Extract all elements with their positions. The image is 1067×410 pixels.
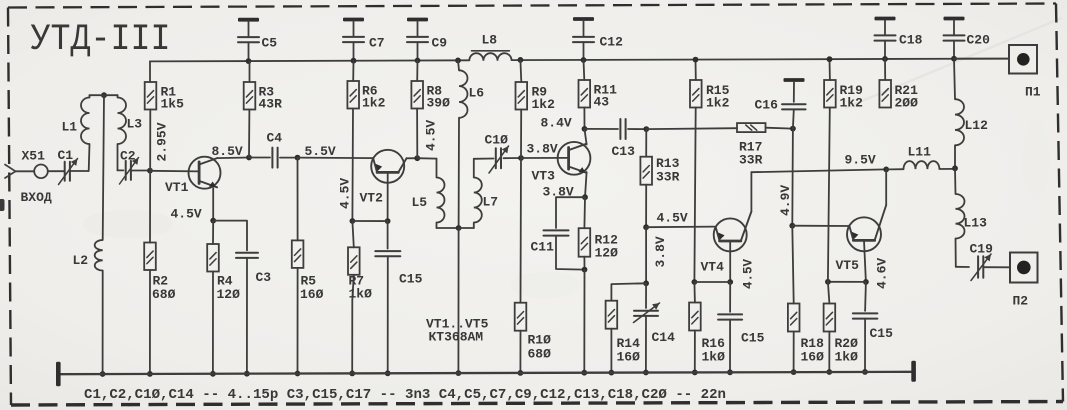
label VT1..VT5 КТ368АМ [426, 317, 489, 345]
svg-text:R1Ø: R1Ø [528, 333, 552, 348]
label X51 [22, 149, 46, 164]
wire C1 to L1 [70, 170, 89, 172]
resistor R8 [411, 81, 450, 111]
wire C16 junction down to VT5 base node [789, 129, 795, 229]
wire R21 top [884, 59, 886, 80]
svg-text:VT4: VT4 [701, 260, 725, 275]
svg-text:2.95V: 2.95V [155, 122, 170, 161]
wire R16 to ground rail [692, 331, 698, 376]
wire C3 to ground rail [244, 258, 250, 377]
svg-text:4.5V: 4.5V [338, 178, 353, 209]
inductor L5 [412, 159, 445, 228]
svg-text:C9: C9 [432, 36, 448, 51]
capacitor C16 with chassis bar [755, 78, 806, 129]
inductor L12 [952, 59, 988, 172]
svg-text:4.5V: 4.5V [657, 211, 688, 226]
transistor VT5 [836, 217, 882, 273]
capacitor C15 first [375, 221, 422, 376]
svg-text:16Ø: 16Ø [801, 350, 825, 365]
resistor R4 [207, 221, 240, 302]
wire VT2 base junction link [352, 220, 387, 222]
svg-text:VT5: VT5 [836, 258, 860, 273]
capacitor C3 [236, 253, 271, 285]
wire C2 to node R1 column [131, 168, 153, 174]
inductor L2 [73, 95, 105, 374]
svg-text:УТД-III: УТД-III [31, 19, 171, 61]
capacitor C18 with chassis ground bar [875, 17, 923, 62]
wire VT3 base line [521, 157, 569, 159]
svg-text:L3: L3 [127, 117, 143, 132]
svg-text:5.5V: 5.5V [305, 144, 336, 159]
label 3.8V VT3 base [527, 142, 558, 157]
wire R19 down to R20 [828, 108, 830, 282]
inductor L6 [455, 58, 484, 229]
svg-text:L13: L13 [964, 216, 988, 231]
svg-text:L6: L6 [469, 86, 485, 101]
wire R14 to ground rail [609, 329, 615, 376]
wire 9.5V line [751, 153, 886, 173]
wire rail corner down to R1 [149, 61, 151, 82]
resistor R9 [516, 82, 556, 112]
wire R3 column [249, 61, 251, 82]
resistor R7 [348, 221, 372, 302]
svg-text:C4: C4 [267, 131, 283, 146]
label 3.8V VT3 emitter [543, 184, 574, 199]
resistor R16 [689, 282, 725, 365]
resistor R17 in line [646, 123, 793, 167]
resistor R5 [292, 240, 324, 302]
wire VT1 base line [150, 170, 199, 173]
wire VT5 base to R20 link [825, 279, 866, 285]
svg-text:L12: L12 [965, 118, 989, 133]
label 8.4V [541, 116, 572, 131]
svg-text:C11: C11 [531, 240, 555, 255]
svg-text:1k2: 1k2 [532, 97, 556, 112]
svg-text:C15: C15 [870, 326, 894, 341]
resistor R2 [144, 243, 175, 303]
svg-text:C13: C13 [612, 144, 636, 159]
svg-text:1kØ: 1kØ [702, 350, 726, 365]
svg-text:VT3: VT3 [532, 169, 556, 184]
wire VT1 collector to 8.5V node [217, 155, 252, 161]
label 4.5V at R7 column [338, 178, 353, 209]
svg-text:33R: 33R [739, 153, 763, 168]
svg-text:1kØ: 1kØ [835, 350, 859, 365]
wire VT3 emitter down [582, 172, 588, 200]
wire R18 to ground rail [791, 332, 797, 376]
connector П2 [1010, 253, 1038, 309]
resistor R1 [145, 82, 184, 112]
wire top supply rail left segment [150, 60, 469, 61]
wire rail to П1 [954, 58, 1009, 60]
wire L8 junction down to R9 [519, 60, 522, 82]
wire R5 to ground rail [295, 268, 301, 376]
junction R16 top [692, 279, 698, 285]
svg-text:4.5V: 4.5V [424, 120, 439, 151]
wire VT2 collector node to L5 [417, 157, 436, 159]
wire L5 bottom to junction [437, 225, 462, 231]
wire R6 top [352, 61, 354, 81]
svg-text:VT1: VT1 [165, 180, 189, 195]
svg-text:39Ø: 39Ø [427, 96, 451, 111]
inductor L3 [104, 95, 142, 170]
svg-text:68Ø: 68Ø [528, 347, 552, 362]
resistor R20 [824, 282, 859, 365]
resistor R6 [347, 81, 385, 111]
capacitor C11 [531, 197, 586, 269]
transistor VT4 [701, 218, 747, 274]
capacitor C15 second [718, 282, 765, 375]
wire VT5 base lead down [863, 240, 869, 284]
svg-text:X51: X51 [22, 149, 46, 164]
resistor R3 [244, 82, 282, 112]
svg-text:L5: L5 [412, 195, 428, 210]
ink blot left edge [0, 199, 5, 211]
wire R8 down to VT2 collector node [416, 109, 418, 159]
label 3.8V rotated [653, 236, 668, 267]
svg-text:9.5V: 9.5V [845, 153, 876, 168]
svg-text:12Ø: 12Ø [595, 246, 619, 261]
svg-text:C16: C16 [755, 98, 779, 113]
wire R11 down to 8.4V node [582, 108, 588, 132]
svg-text:1k2: 1k2 [840, 96, 864, 111]
inductor L11 in 9.5V line [886, 145, 955, 170]
svg-text:C15: C15 [741, 331, 765, 346]
capacitor C12 with chassis ground bar [573, 17, 623, 63]
svg-text:C5: C5 [262, 36, 278, 51]
wire VT3 base node down to R10 [520, 158, 523, 303]
resistor R19 [824, 80, 863, 111]
svg-text:C7: C7 [369, 36, 385, 51]
label 4.5V VT4 base column [742, 258, 756, 289]
wire R15 down to R16 [694, 108, 695, 283]
title УТД-III [31, 19, 171, 61]
wire R11 top [583, 60, 586, 80]
wire VT5 collector up [875, 169, 887, 240]
svg-text:3.8V: 3.8V [527, 142, 558, 157]
wire VT5 emitter line [792, 225, 849, 227]
capacitor C1 (trimmer) [58, 148, 78, 185]
capacitor C4 [249, 131, 300, 168]
svg-text:L11: L11 [908, 145, 932, 160]
label 4.5V at R8 column [424, 120, 439, 151]
svg-text:8.5V: 8.5V [212, 144, 243, 159]
wire R2 to ground rail [147, 270, 153, 377]
label 2.95V [155, 122, 170, 161]
wire VT4 base lead down [727, 241, 733, 285]
resistor R18 [788, 226, 824, 365]
resistor R11 [579, 80, 618, 110]
wire VT2 base lead down [385, 172, 391, 224]
wire R6 down across to VT2 base junction [351, 109, 354, 222]
svg-text:4.5V: 4.5V [742, 258, 756, 289]
svg-text:C20: C20 [967, 33, 991, 48]
capacitor C10 (trimmer) [485, 133, 509, 174]
junction L8 right rail [518, 57, 524, 63]
svg-text:33R: 33R [656, 170, 680, 185]
wire R20 to ground rail [826, 332, 832, 375]
wire R4 to ground rail [210, 272, 216, 377]
svg-text:12Ø: 12Ø [217, 287, 241, 302]
label 4.9V rotated [778, 185, 793, 216]
svg-text:43: 43 [594, 95, 610, 110]
inductor L8 in supply rail [469, 33, 511, 61]
capacitor C5 with chassis ground bar [238, 18, 277, 64]
junction VT5 collector at 9.5V line [883, 167, 889, 173]
wire VT4 collector up to 9.5V line [741, 172, 752, 241]
wire L3 to C2 [118, 169, 124, 171]
svg-text:VT2: VT2 [360, 191, 384, 206]
svg-text:16Ø: 16Ø [617, 350, 641, 365]
wire 5.5V line to VT2 emitter [298, 157, 374, 160]
wire 4.5V line to VT4 [646, 226, 714, 229]
wire L13 to C19 [956, 266, 969, 268]
caption capacitor values [84, 388, 726, 403]
capacitor C2 (trimmer) [120, 149, 139, 185]
label 4.5V VT1 emitter [171, 206, 202, 221]
capacitor C9 with chassis ground bar [407, 18, 447, 64]
transistor VT3 [532, 142, 591, 184]
inductor L7 [459, 159, 499, 228]
capacitor C13 [585, 119, 650, 159]
wire R9 to VT3 base node [520, 110, 522, 159]
svg-text:ВХОД: ВХОД [21, 190, 52, 205]
svg-text:C18: C18 [899, 33, 923, 48]
wire 5.5V node down to R5 [297, 158, 299, 241]
wire R19 top [827, 56, 833, 80]
wire VT4 base to R16 link [694, 281, 730, 283]
transistor VT2 [360, 150, 405, 206]
svg-text:C14: C14 [652, 330, 676, 345]
wire L6 L5 L7 junction to ground rail [456, 228, 462, 376]
svg-text:C1Ø: C1Ø [485, 133, 509, 148]
svg-text:C1,C2,C1Ø,C14 -- 4..15p C3,C15: C1,C2,C1Ø,C14 -- 4..15p C3,C15,C17 -- 3n… [84, 388, 726, 403]
junction L2 at ground rail [100, 371, 106, 377]
label ВХОД [21, 190, 52, 205]
svg-text:2ØØ: 2ØØ [895, 96, 919, 111]
resistor R14 [606, 301, 641, 365]
svg-text:П2: П2 [1013, 294, 1029, 309]
svg-text:C1: C1 [58, 148, 74, 163]
svg-text:1k2: 1k2 [706, 96, 730, 111]
svg-text:1k5: 1k5 [161, 97, 185, 112]
node top of input tank [101, 92, 107, 98]
svg-text:8.4V: 8.4V [541, 116, 572, 131]
svg-text:L8: L8 [482, 33, 498, 48]
junction R17 C16 [790, 126, 796, 132]
resistor R21 [879, 80, 918, 111]
svg-text:68Ø: 68Ø [152, 287, 176, 302]
capacitor C19 (trimmer) [970, 242, 994, 281]
wire emitter jog to C3 [213, 221, 247, 251]
wire top supply rail right segment [512, 59, 1009, 61]
svg-text:L2: L2 [73, 253, 89, 268]
wire R12 to ground rail [581, 257, 587, 376]
resistor R12 [579, 197, 619, 260]
wire VT1 emitter down [210, 188, 216, 224]
svg-text:4.9V: 4.9V [778, 185, 793, 216]
label 4.5V VT4 emitter line [657, 211, 688, 226]
resistor R10 [515, 303, 551, 362]
wire R10 to ground rail [518, 331, 524, 376]
connector П1 [1009, 45, 1041, 100]
resistor R15 [690, 80, 730, 111]
capacitor C20 with chassis ground bar [944, 17, 991, 62]
wire L7 top to C10 [474, 158, 494, 160]
wire R7 to ground rail [349, 300, 355, 376]
svg-text:1k2: 1k2 [362, 96, 386, 111]
inductor L1 [62, 95, 105, 171]
wire R13 column down [643, 227, 649, 286]
svg-text:3.8V: 3.8V [653, 236, 668, 267]
resistor R13 [640, 129, 679, 185]
connector X51 input arrow [5, 165, 48, 179]
wire R8 top [416, 61, 418, 82]
label 8.5V [212, 144, 243, 159]
wire R1 to VT1 base node [149, 110, 151, 243]
wire VT3 collector up [585, 129, 587, 145]
svg-text:C3: C3 [256, 270, 272, 285]
wire R15 top [693, 57, 699, 80]
wire X51 to C1 [48, 170, 64, 172]
svg-text:L1: L1 [62, 120, 78, 135]
capacitor C15 third [853, 282, 893, 375]
wire jog to R14 [611, 283, 646, 300]
svg-text:П1: П1 [1025, 85, 1041, 100]
svg-text:4.5V: 4.5V [171, 206, 202, 221]
svg-text:C2: C2 [120, 149, 136, 164]
svg-text:43R: 43R [259, 97, 283, 112]
svg-text:C12: C12 [600, 35, 624, 50]
svg-text:C15: C15 [399, 272, 423, 287]
svg-text:C19: C19 [970, 242, 994, 257]
wire R13 to 4.5V junction [643, 185, 649, 230]
svg-text:4.6V: 4.6V [875, 258, 890, 289]
wire C19 to П2 [984, 266, 1011, 268]
transistor VT1 [165, 157, 221, 195]
junction R7 top [350, 218, 356, 224]
capacitor C14 (trimmer) [634, 283, 676, 375]
svg-text:16Ø: 16Ø [300, 287, 324, 302]
svg-text:L7: L7 [483, 195, 499, 210]
wire R3 to 8.5V node [248, 110, 250, 158]
wire C10 to VT3 base node [504, 155, 524, 161]
ground rail [56, 361, 916, 387]
wire VT2 collector to R8 node [398, 155, 420, 172]
svg-text:КТ368АМ: КТ368АМ [429, 330, 484, 345]
capacitor C7 with chassis ground bar [343, 18, 385, 64]
inductor L13 [955, 168, 987, 266]
label 5.5V [305, 144, 336, 159]
label 4.6V rotated [875, 258, 890, 289]
